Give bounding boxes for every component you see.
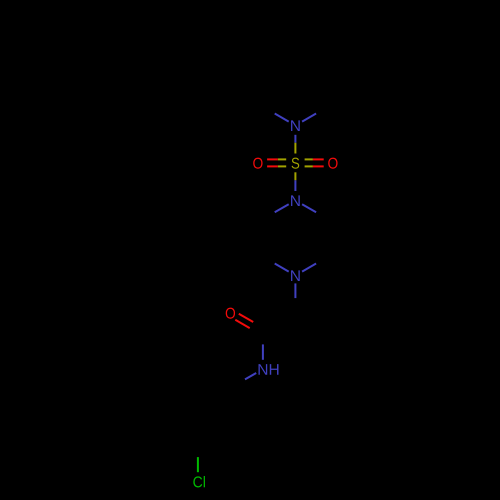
bond piperidine C2-C3 — [262, 69, 264, 107]
bond piperidine N1-C2 — [275, 114, 289, 122]
bond C-N amide — [262, 344, 264, 359]
bond phenyl C6-C1 — [230, 388, 263, 407]
atom O sulfonyl right — [328, 158, 337, 169]
atom S sulfonyl — [292, 158, 300, 169]
bond piperidine N1-C6 — [302, 114, 316, 122]
bond CH2-C(=O) — [263, 313, 296, 332]
bond piperazine N1-C6 — [275, 204, 289, 212]
bond phenyl C5-C6 — [262, 407, 264, 445]
bond phenyl C4-C5 — [230, 444, 263, 463]
bond piperazine N1-C2 — [302, 204, 316, 212]
bond C3-Cl — [197, 457, 199, 472]
bond piperidine C5-C6 — [327, 69, 329, 107]
bond piperazine C5-C6 — [262, 219, 264, 256]
atom O carbonyl — [226, 308, 235, 319]
bond piperazine C2-C3 — [327, 219, 329, 256]
bond S-N(piperazine) — [294, 172, 296, 191]
atom N piperazine bottom — [291, 270, 300, 281]
bond piperidine C4-C5 — [295, 50, 328, 69]
bond piperidine C3-C4 — [263, 50, 296, 69]
bond piperazine N4-C3 — [302, 264, 316, 272]
bond phenyl C3-C4 — [198, 444, 231, 463]
bond phenyl C1-C2 — [198, 388, 231, 407]
atom O sulfonyl left — [253, 158, 262, 169]
double bond C=O carbonyl — [235, 314, 253, 328]
bond phenyl C2-C3 — [197, 407, 199, 445]
bond N4-CH2 — [294, 283, 296, 298]
atom Cl chloro — [193, 476, 205, 487]
double bond S=O left — [267, 159, 286, 166]
atom NH amide — [259, 364, 279, 375]
atom N piperidine — [291, 120, 300, 131]
bond N(piperidine)-S — [294, 135, 296, 154]
double bond S=O right — [305, 159, 324, 166]
bond N-C1 phenyl — [245, 373, 256, 379]
atom N piperazine top — [291, 195, 300, 206]
bond piperazine N4-C5 — [275, 264, 289, 272]
